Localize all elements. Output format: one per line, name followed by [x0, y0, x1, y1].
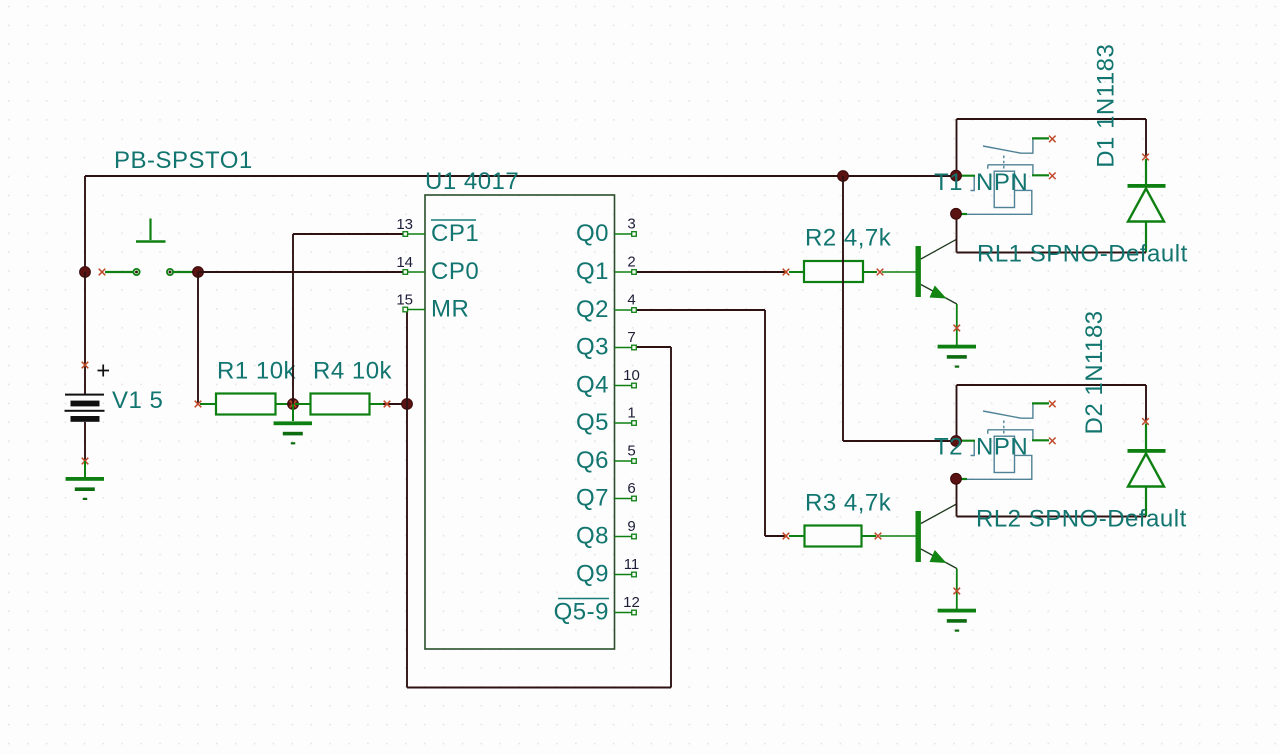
wire R4 to MR node — [383, 403, 407, 405]
svg-text:Q3: Q3 — [576, 334, 609, 361]
svg-text:RL1 SPNO-Default: RL1 SPNO-Default — [977, 241, 1188, 268]
svg-text:U1 4017: U1 4017 — [425, 168, 519, 195]
svg-text:Q7: Q7 — [576, 485, 609, 512]
diode D2 — [1145, 424, 1147, 451]
pin 2 (Q1) — [615, 271, 632, 273]
svg-text:14: 14 — [396, 254, 413, 271]
pin 7 (Q3) — [615, 347, 632, 349]
wire ground stub battery — [84, 461, 86, 477]
svg-text:Q1: Q1 — [576, 258, 609, 285]
wire top supply rail — [85, 175, 956, 177]
transistor T2 — [916, 511, 921, 562]
svg-text:R2 4,7k: R2 4,7k — [805, 225, 892, 252]
wire feedback right vertical to Q3 — [670, 347, 672, 688]
svg-text:NPN: NPN — [976, 169, 1028, 196]
svg-text:Q5: Q5 — [576, 409, 609, 436]
wire T1 collector vertical — [956, 214, 958, 253]
svg-text:12: 12 — [623, 594, 640, 611]
node switch right junction — [193, 267, 204, 278]
ground R1-R4 — [274, 421, 312, 444]
wire Q2 to R3 — [637, 309, 765, 311]
pin 9 (Q8) — [615, 536, 632, 538]
svg-text:3: 3 — [627, 216, 635, 233]
wire T2 collector vertical — [956, 479, 958, 517]
wire R1-R4 node up to CP1 — [292, 234, 294, 404]
pin 10 (Q4) — [615, 385, 632, 387]
pin 5 (Q6) — [615, 460, 632, 462]
relay RL2 pin leads — [1032, 402, 1049, 404]
resistor R4 — [295, 403, 311, 405]
svg-text:15: 15 — [396, 292, 413, 309]
resistor R2 — [783, 269, 790, 276]
svg-text:D2 1N1183: D2 1N1183 — [1081, 310, 1108, 434]
svg-text:5: 5 — [627, 443, 635, 460]
transistor T1 — [916, 246, 921, 297]
wire relay RL1 top — [957, 118, 1147, 120]
ground T1 emitter — [938, 345, 976, 368]
svg-text:PB-SPSTO1: PB-SPSTO1 — [114, 147, 253, 174]
pin connection battery plus — [82, 362, 89, 369]
pin 6 (Q7) — [615, 498, 632, 500]
ground battery — [66, 477, 104, 500]
wire T2 emitter down — [956, 569, 958, 610]
node R1-R4 junction — [288, 399, 299, 410]
pin 3 (Q0) — [615, 233, 632, 235]
pin 1 (Q5) — [615, 422, 632, 424]
node relay RL1 coil bottom — [951, 208, 962, 219]
wire diode D2 top — [1145, 385, 1147, 422]
ground T2 emitter — [938, 609, 976, 632]
wire battery bottom — [84, 422, 86, 461]
svg-text:RL2 SPNO-Default: RL2 SPNO-Default — [976, 506, 1187, 533]
svg-text:Q0: Q0 — [576, 220, 609, 247]
svg-text:T1: T1 — [934, 169, 963, 196]
svg-text:NPN: NPN — [976, 434, 1028, 461]
relay RL1 pin leads — [1032, 137, 1049, 139]
resistor R1 — [195, 401, 202, 408]
svg-text:Q6: Q6 — [576, 447, 609, 474]
wire Q1 to R2 — [637, 271, 786, 273]
diode D1 — [1145, 159, 1147, 185]
wire switch node down to R1 — [197, 272, 199, 404]
wire relay RL1 left vertical — [956, 119, 958, 172]
relay RL1 coil and contact — [958, 138, 1033, 214]
wire left vertical from rail to switch node — [84, 176, 86, 272]
wire switch to CP0 — [198, 271, 403, 273]
pin 15 (MR) — [408, 309, 425, 311]
battery V1 plus sign — [98, 365, 110, 377]
pin 11 (Q9) — [615, 574, 632, 576]
wire MR vertical — [406, 310, 408, 688]
svg-text:CP1: CP1 — [431, 220, 479, 247]
pushbutton PB1 contact lead left — [99, 269, 106, 276]
node switch left junction — [80, 267, 91, 278]
svg-text:13: 13 — [396, 216, 413, 233]
pin connection battery minus — [82, 458, 89, 465]
pushbutton PB1 actuator — [149, 219, 151, 241]
wire relay RL2 left vertical — [956, 385, 958, 437]
pushbutton PB1 contact right — [167, 269, 173, 275]
pin 13 (CP1) — [408, 233, 425, 235]
svg-text:Q4: Q4 — [576, 372, 609, 399]
op-amp U1 4017 body — [425, 195, 615, 649]
svg-text:10: 10 — [623, 367, 640, 384]
svg-text:Q9: Q9 — [576, 561, 609, 588]
svg-text:7: 7 — [627, 329, 635, 346]
svg-text:11: 11 — [624, 556, 640, 573]
svg-text:R4 10k: R4 10k — [313, 358, 393, 385]
wire R3 to T2 base — [880, 535, 916, 537]
svg-text:R3 4,7k: R3 4,7k — [805, 490, 892, 517]
node relay RL1 coil top — [951, 170, 962, 181]
svg-text:Q5-9: Q5-9 — [554, 599, 609, 626]
svg-text:6: 6 — [627, 480, 635, 497]
svg-text:V1 5: V1 5 — [112, 387, 163, 414]
pin 14 (CP0) — [408, 271, 425, 273]
svg-text:R1 10k: R1 10k — [217, 358, 297, 385]
resistor R3 — [783, 533, 790, 540]
wire bottom feedback horizontal — [407, 687, 671, 689]
pushbutton PB1 contact left — [133, 269, 139, 275]
node relay RL2 coil top — [951, 436, 962, 447]
pushbutton PB1 contact lead right — [173, 271, 196, 273]
wire R2 to T1 base — [882, 271, 916, 273]
wire relay RL2 top — [957, 384, 1147, 386]
wire rail junction down to relay RL2 — [838, 171, 849, 182]
wire ground stub R1-R4 — [292, 404, 294, 421]
relay RL2 coil and contact — [958, 403, 1033, 479]
wire relay RL1 bottom to diode — [957, 252, 1147, 254]
wire diode D1 top — [1145, 119, 1147, 157]
svg-text:1: 1 — [627, 405, 635, 422]
svg-text:2: 2 — [627, 254, 635, 271]
svg-text:4: 4 — [627, 292, 635, 309]
pin 4 (Q2) — [615, 309, 632, 311]
svg-text:Q8: Q8 — [576, 523, 609, 550]
svg-text:9: 9 — [627, 518, 635, 535]
node relay RL2 coil bottom — [951, 473, 962, 484]
battery V1 plates — [65, 394, 104, 396]
svg-text:D1 1N1183: D1 1N1183 — [1093, 44, 1120, 168]
node MR junction — [402, 399, 413, 410]
wire relay RL2 bottom to diode — [957, 516, 1147, 518]
svg-text:CP0: CP0 — [431, 258, 479, 285]
svg-text:MR: MR — [431, 296, 469, 323]
wire T1 emitter down — [956, 304, 958, 345]
pin 12 (Q5-9) — [615, 612, 632, 614]
svg-text:Q2: Q2 — [576, 296, 609, 323]
wire Q3 to feedback — [637, 346, 671, 348]
wire battery top — [84, 272, 86, 395]
svg-text:T2: T2 — [934, 434, 963, 461]
